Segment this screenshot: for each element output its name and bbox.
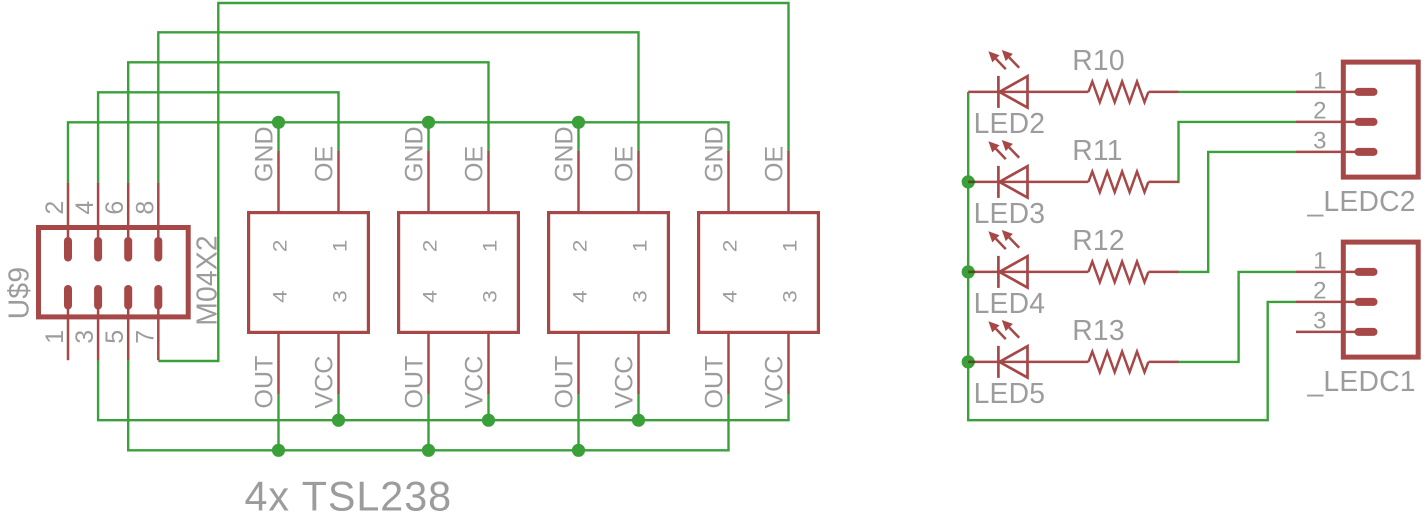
svg-text:3: 3 bbox=[330, 290, 351, 303]
svg-text:OE: OE bbox=[761, 146, 789, 182]
svg-text:OUT: OUT bbox=[551, 356, 579, 409]
svg-text:3: 3 bbox=[480, 290, 501, 303]
svg-text:GND: GND bbox=[251, 126, 279, 182]
svg-text:LED3: LED3 bbox=[974, 197, 1046, 229]
svg-text:GND: GND bbox=[551, 126, 579, 182]
svg-text:OE: OE bbox=[311, 146, 339, 182]
svg-text:VCC: VCC bbox=[461, 356, 489, 409]
svg-text:OUT: OUT bbox=[701, 356, 729, 409]
svg-text:2: 2 bbox=[270, 240, 291, 253]
svg-text:3: 3 bbox=[71, 330, 99, 344]
svg-text:VCC: VCC bbox=[611, 356, 639, 409]
svg-text:3: 3 bbox=[1313, 307, 1326, 334]
svg-text:4x TSL238: 4x TSL238 bbox=[245, 473, 453, 519]
svg-text:VCC: VCC bbox=[311, 356, 339, 409]
svg-text:8: 8 bbox=[131, 201, 159, 215]
svg-text:2: 2 bbox=[41, 201, 69, 215]
svg-text:VCC: VCC bbox=[761, 356, 789, 409]
svg-text:GND: GND bbox=[401, 126, 429, 182]
svg-text:GND: GND bbox=[701, 126, 729, 182]
svg-text:4: 4 bbox=[570, 290, 591, 303]
svg-text:5: 5 bbox=[101, 330, 129, 344]
svg-text:4: 4 bbox=[270, 290, 291, 303]
svg-text:1: 1 bbox=[1313, 247, 1326, 274]
svg-text:1: 1 bbox=[480, 240, 501, 253]
svg-text:1: 1 bbox=[41, 330, 69, 344]
svg-text:2: 2 bbox=[1313, 97, 1326, 124]
svg-text:3: 3 bbox=[630, 290, 651, 303]
svg-text:R12: R12 bbox=[1072, 224, 1125, 256]
svg-text:3: 3 bbox=[780, 290, 801, 303]
svg-text:LED4: LED4 bbox=[974, 287, 1046, 319]
svg-text:OUT: OUT bbox=[401, 356, 429, 409]
svg-text:2: 2 bbox=[1313, 277, 1326, 304]
svg-text:6: 6 bbox=[101, 201, 129, 215]
svg-text:_LEDC1: _LEDC1 bbox=[1307, 365, 1416, 397]
svg-text:4: 4 bbox=[71, 201, 99, 215]
svg-text:OE: OE bbox=[461, 146, 489, 182]
svg-text:OE: OE bbox=[611, 146, 639, 182]
svg-text:4: 4 bbox=[720, 290, 741, 303]
svg-text:M04X2: M04X2 bbox=[190, 235, 222, 326]
svg-text:2: 2 bbox=[570, 240, 591, 253]
svg-text:1: 1 bbox=[630, 240, 651, 253]
svg-text:4: 4 bbox=[420, 290, 441, 303]
svg-text:LED2: LED2 bbox=[974, 107, 1046, 139]
svg-text:OUT: OUT bbox=[251, 356, 279, 409]
svg-text:1: 1 bbox=[1313, 67, 1326, 94]
svg-text:1: 1 bbox=[780, 240, 801, 253]
svg-text:3: 3 bbox=[1313, 127, 1326, 154]
svg-text:1: 1 bbox=[330, 240, 351, 253]
svg-text:7: 7 bbox=[131, 330, 159, 344]
svg-text:2: 2 bbox=[720, 240, 741, 253]
svg-text:LED5: LED5 bbox=[974, 377, 1046, 409]
svg-text:_LEDC2: _LEDC2 bbox=[1307, 185, 1416, 217]
svg-text:R10: R10 bbox=[1072, 44, 1125, 76]
svg-text:R13: R13 bbox=[1072, 314, 1125, 346]
svg-text:U$9: U$9 bbox=[3, 267, 35, 320]
svg-text:2: 2 bbox=[420, 240, 441, 253]
svg-text:R11: R11 bbox=[1072, 134, 1122, 166]
